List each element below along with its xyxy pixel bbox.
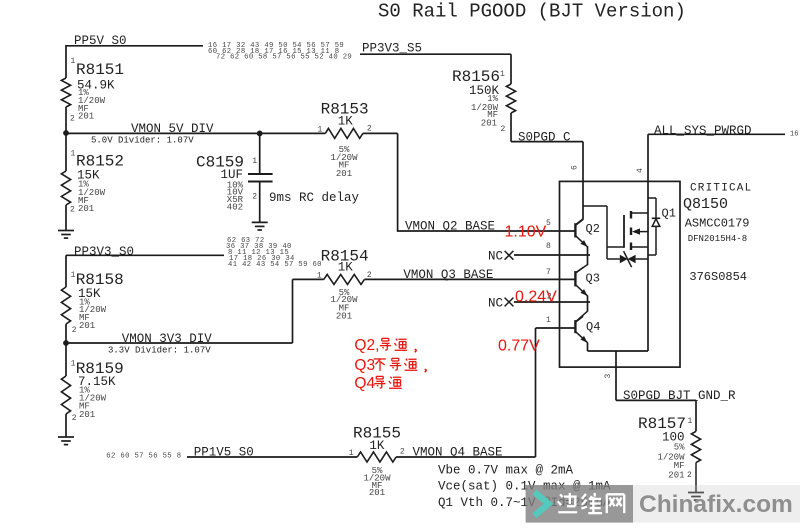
svg-text:201: 201 [668,471,684,481]
svg-text:0.24V: 0.24V [515,289,557,306]
svg-text:1: 1 [252,157,257,166]
wire pin3 drop [615,351,617,400]
watermark xunwei text [560,494,562,497]
svg-text:1: 1 [546,316,551,325]
svg-text:Vbe 0.7V max @ 2mA: Vbe 0.7V max @ 2mA [438,464,574,478]
mosfet Q1 gate [623,215,625,248]
body diode [648,197,656,199]
watermark badge [526,485,633,523]
svg-text:2: 2 [70,115,75,124]
svg-text:201: 201 [369,488,385,498]
svg-text:1: 1 [500,70,505,79]
svg-text:5.0V Divider: 1.07V: 5.0V Divider: 1.07V [91,136,194,146]
transistor Q2 [574,223,576,237]
svg-text:9ms RC delay: 9ms RC delay [269,191,360,205]
svg-text:2: 2 [400,448,405,457]
svg-text:201: 201 [79,410,95,420]
svg-text:402: 402 [227,203,243,213]
svg-text:2: 2 [501,125,506,134]
svg-text:8: 8 [546,242,551,251]
svg-text:1: 1 [318,126,323,135]
ground R8159 [58,436,74,438]
svg-text:VMON_Q4_BASE: VMON_Q4_BASE [413,446,503,460]
wire Q2 emitter to Q3 collector [587,246,589,265]
wire PP5V_S0 riser [65,45,67,78]
svg-text:Chinafix.com: Chinafix.com [639,491,793,518]
svg-text:1: 1 [349,449,354,458]
capacitor C8159 [259,133,261,174]
svg-text:DFN2015H4-8: DFN2015H4-8 [688,234,747,244]
svg-text:MF: MF [674,461,685,471]
node VMON_3V3_DIV [63,340,69,346]
svg-text:CRITICAL: CRITICAL [690,183,752,195]
svg-text:VMON_Q2_BASE: VMON_Q2_BASE [405,220,495,234]
svg-text:1: 1 [71,150,76,159]
ground R8157 over band [695,463,697,493]
svg-text:Q3: Q3 [586,272,600,286]
svg-text:201: 201 [336,169,352,179]
wire VMON_Q4_BASE [396,456,535,458]
svg-text:7: 7 [546,268,551,277]
svg-text:41 42 43 54 57 59 60: 41 42 43 54 57 59 60 [228,261,322,269]
wire PP3V3_S5 [360,53,511,55]
ground C8159 [252,221,268,223]
wire PP5V_S0 horizontal [66,45,203,47]
mosfet Q1 body arrow [632,228,640,234]
svg-text:2: 2 [72,326,77,335]
svg-text:376S0854: 376S0854 [689,270,747,284]
svg-text:16: 16 [790,131,798,139]
svg-text:5%: 5% [674,443,685,453]
transistor array U-box Q8150 [560,181,681,367]
NC pin 2 stub [514,301,590,303]
wire VMON_Q3_BASE [364,278,574,280]
svg-text:2: 2 [367,125,372,134]
wire ALL_SYS_PWRGD [648,133,785,135]
svg-text:Q2: Q2 [586,222,600,236]
svg-text:6: 6 [571,165,580,170]
svg-text:72 62 60 58 57 56 55 52 40 29: 72 62 60 58 57 56 55 52 40 29 [216,53,352,61]
svg-text:Q3: Q3 [354,357,375,374]
mosfet Q1 source [631,246,648,248]
svg-text:2: 2 [70,206,75,215]
node C8159 tap [257,131,263,137]
svg-text:VMON_Q3_BASE: VMON_Q3_BASE [403,268,493,282]
svg-text:1.10V: 1.10V [505,224,547,241]
wire VMON_5V_DIV [66,132,325,134]
svg-text:4: 4 [636,168,645,173]
svg-text:NC: NC [488,250,503,264]
svg-text:201: 201 [78,204,94,214]
svg-text:201: 201 [78,112,94,122]
mosfet Q1 channel [630,211,632,219]
watermark chevron icon [535,492,549,516]
wire VMON_Q2_BASE riser [397,133,399,231]
wire gate path [583,205,607,207]
wire S0PGD_BJT_GND_R [616,399,696,401]
wire R8151 to node [65,107,67,133]
wire VMON_3V3_DIV [66,342,293,344]
svg-text:3: 3 [604,374,613,379]
ground R8152 [58,230,74,232]
svg-text:PP3V3_S0: PP3V3_S0 [74,245,134,259]
svg-text:Q2,: Q2, [354,337,379,354]
svg-text:2: 2 [72,414,77,423]
svg-text:S0 Rail PGOOD (BJT Version): S0 Rail PGOOD (BJT Version) [378,1,686,23]
transistor Q3 [574,271,576,286]
node VMON_5V_DIV [63,130,69,136]
wire Q4 emitter to rail [587,342,589,351]
svg-text:1K: 1K [338,261,354,275]
wire Q3 emitter to Q4 collector [587,296,589,312]
wire emitter rail [588,350,649,352]
svg-text:62 60 57 56 55 8: 62 60 57 56 55 8 [106,453,181,461]
svg-text:201: 201 [481,119,497,129]
svg-text:1: 1 [688,417,693,426]
wire riser to R8154 [292,279,294,343]
svg-text:Q1: Q1 [662,207,676,221]
transistor Q4 [574,320,576,333]
ESD diode bowtie [607,258,620,260]
svg-text:ASMCC0179: ASMCC0179 [685,217,750,231]
svg-text:Q4: Q4 [586,320,600,334]
svg-text:Q8150: Q8150 [683,196,728,213]
NC pin 8 stub [514,254,590,256]
svg-text:1K: 1K [338,115,354,129]
wire R8153 to riser [363,132,398,134]
svg-text:5: 5 [546,219,551,228]
mosfet Q1 drain [631,212,648,214]
svg-text:201: 201 [79,321,95,331]
svg-text:VMON_3V3_DIV: VMON_3V3_DIV [122,332,213,346]
svg-text:2: 2 [252,193,257,202]
svg-text:3.3V Divider: 1.07V: 3.3V Divider: 1.07V [108,346,211,356]
svg-text:Q4: Q4 [354,375,375,392]
ground R8157 [688,492,704,494]
wire Q2 collector [575,219,583,225]
svg-text:1: 1 [317,272,322,281]
wire VMON_Q2_BASE [397,230,575,232]
wire PP3V3_S0 [66,254,224,256]
svg-text:2: 2 [687,471,692,480]
wire pin4 drop [647,134,649,351]
svg-text:1K: 1K [369,439,385,453]
svg-text:0.77V: 0.77V [498,338,540,355]
wire S0PGD_C [511,141,583,143]
svg-text:NC: NC [488,297,503,311]
svg-text:201: 201 [336,312,352,322]
wire PP1V5_S0 [187,456,357,458]
svg-text:1: 1 [71,57,76,66]
svg-text:ALL_SYS_PWRGD: ALL_SYS_PWRGD [654,124,752,138]
svg-text:R8151: R8151 [76,61,124,79]
